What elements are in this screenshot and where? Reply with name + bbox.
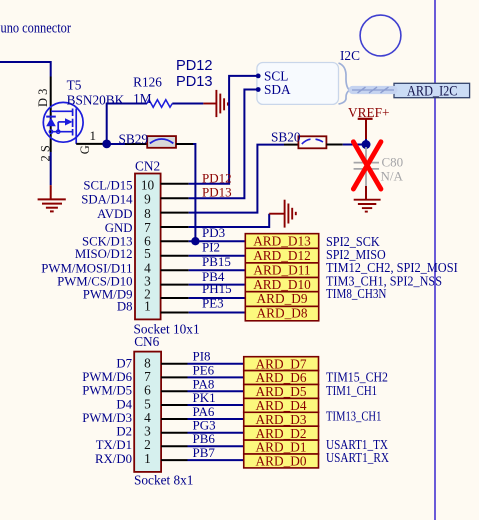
svg-text:1: 1 — [144, 299, 151, 314]
harness entry ARD_D5 — [244, 384, 319, 399]
svg-text:2 S: 2 S — [39, 145, 53, 161]
svg-text:PB15: PB15 — [202, 254, 231, 269]
harness entry dot SCL — [256, 74, 261, 79]
junction dot PD3 node — [191, 237, 199, 245]
svg-text:uno connector: uno connector — [1, 21, 72, 37]
solder bridge SB29 — [147, 136, 176, 148]
svg-text:ARD_D9: ARD_D9 — [257, 291, 308, 306]
transistor T5 body diode — [46, 118, 56, 127]
wire from left edge to T5 drain — [0, 62, 51, 77]
svg-text:T5: T5 — [67, 78, 82, 93]
wire SB29 to PD3 node — [176, 143, 193, 145]
svg-text:ARD_D10: ARD_D10 — [253, 277, 311, 292]
wire SB20 to VREF node — [326, 144, 342, 146]
svg-text:PB6: PB6 — [193, 431, 216, 446]
svg-text:ARD_D8: ARD_D8 — [257, 306, 308, 321]
CN2 pin numbers — [141, 177, 155, 313]
svg-text:MISO/D12: MISO/D12 — [75, 247, 133, 261]
transistor T5 body — [43, 102, 83, 142]
wire pin2 PH15 — [189, 297, 246, 299]
wire pin10 to SCL — [189, 76, 259, 184]
connector CN2 — [135, 174, 161, 320]
svg-text:D2: D2 — [116, 425, 132, 439]
svg-text:5: 5 — [144, 246, 151, 261]
harness entry ARD_D2 — [244, 426, 319, 441]
svg-text:ARD_D0: ARD_D0 — [256, 454, 307, 469]
svg-text:PWM/D5: PWM/D5 — [82, 384, 132, 398]
svg-text:D7: D7 — [116, 356, 132, 370]
wire pin1 PE3 — [189, 312, 246, 314]
harness entry ARD_D3 — [244, 412, 319, 427]
transistor T5 source pin circles — [49, 130, 53, 134]
CN2 pin stubs — [161, 184, 189, 313]
svg-text:ARD_D13: ARD_D13 — [253, 233, 311, 248]
harness entry ARD_D8 — [245, 306, 318, 321]
svg-text:ARD_D6: ARD_D6 — [256, 370, 307, 385]
harness entry ARD_D1 — [244, 440, 319, 455]
harness entry ARD_D4 — [244, 398, 319, 413]
svg-text:GND: GND — [105, 221, 133, 235]
svg-text:7: 7 — [144, 369, 151, 384]
svg-text:2: 2 — [144, 437, 151, 452]
svg-text:D4: D4 — [116, 397, 132, 411]
svg-text:ARD_D11: ARD_D11 — [253, 263, 310, 278]
wire pin9 to SDA — [189, 90, 259, 199]
harness entry ARD_D12 — [245, 248, 318, 263]
wire pin4 PB15 — [189, 269, 246, 271]
svg-text:G: G — [78, 145, 92, 154]
svg-text:1: 1 — [144, 451, 151, 466]
svg-text:PWM/D3: PWM/D3 — [82, 411, 132, 425]
harness entry ARD_D7 — [244, 356, 319, 371]
CN6 left pin name labels — [82, 356, 132, 466]
svg-text:ARD_D12: ARD_D12 — [253, 248, 311, 263]
svg-text:PWM/CS/D10: PWM/CS/D10 — [57, 275, 132, 289]
svg-text:ARD_I2C: ARD_I2C — [407, 84, 458, 100]
svg-text:TX/D1: TX/D1 — [96, 438, 132, 452]
harness entry dot SDA — [256, 87, 261, 92]
svg-text:USART1_RX: USART1_RX — [326, 450, 389, 465]
svg-text:PWM/MOSI/D11: PWM/MOSI/D11 — [41, 261, 132, 275]
harness entry ARD_D11 — [245, 263, 318, 278]
svg-text:I2C: I2C — [340, 48, 360, 63]
svg-text:C80: C80 — [382, 154, 404, 169]
I2C harness body — [257, 63, 339, 105]
harness entry ARD_D9 — [245, 291, 318, 306]
svg-text:SCL: SCL — [264, 68, 288, 83]
wire gate node to SB29 — [107, 143, 125, 145]
svg-text:8: 8 — [144, 206, 151, 221]
svg-text:PB7: PB7 — [193, 445, 216, 460]
harness entry ARD_D10 — [245, 277, 318, 292]
capacitor C80 (not fitted) — [354, 147, 379, 186]
svg-text:PH15: PH15 — [202, 281, 232, 296]
wire pin5 PI2 — [189, 255, 246, 257]
svg-text:SDA/D14: SDA/D14 — [81, 193, 133, 207]
svg-text:SB29: SB29 — [119, 132, 149, 147]
sideways ground at pin7 — [269, 200, 296, 228]
svg-text:ARD_D5: ARD_D5 — [256, 384, 307, 399]
svg-text:Socket 8x1: Socket 8x1 — [134, 472, 193, 487]
harness connector ARD_I2C — [394, 83, 470, 99]
svg-text:TIM8_CH3N: TIM8_CH3N — [326, 286, 387, 301]
svg-text:RX/D0: RX/D0 — [95, 452, 132, 466]
svg-text:9: 9 — [144, 192, 151, 207]
svg-text:N/A: N/A — [381, 169, 404, 184]
svg-text:TIM13_CH1: TIM13_CH1 — [326, 408, 381, 423]
T5 gate pin — [75, 136, 77, 144]
transistor T5 pin line (drain-source through body) — [50, 77, 52, 153]
svg-text:AVDD: AVDD — [97, 207, 132, 221]
svg-text:BSN20BK: BSN20BK — [67, 93, 125, 108]
svg-text:TIM1_CH1: TIM1_CH1 — [326, 383, 377, 398]
wire pin3 PB4 — [189, 284, 246, 286]
svg-text:PE6: PE6 — [193, 362, 215, 377]
solder bridge SB20 — [298, 136, 326, 148]
svg-text:SDA: SDA — [264, 82, 291, 97]
svg-text:R126: R126 — [133, 75, 162, 90]
svg-text:PE3: PE3 — [202, 295, 224, 310]
wire pin7 to ground — [189, 214, 270, 227]
svg-text:PD12: PD12 — [202, 170, 232, 185]
ground under T5 — [38, 185, 66, 211]
svg-text:ARD_D2: ARD_D2 — [256, 426, 307, 441]
svg-text:PD13: PD13 — [202, 185, 232, 200]
harness entry ARD_D0 — [244, 454, 319, 469]
svg-text:PD13: PD13 — [176, 74, 213, 90]
power port VREF+ — [348, 105, 390, 139]
svg-text:ARD_D3: ARD_D3 — [256, 412, 307, 427]
svg-text:PK1: PK1 — [193, 390, 216, 405]
harness entry ARD_D13 — [245, 233, 318, 248]
svg-text:D 3: D 3 — [36, 89, 50, 107]
svg-text:PWM/D6: PWM/D6 — [82, 370, 132, 384]
not-fitted cross — [353, 142, 381, 189]
wire gate node up to R126 — [107, 104, 147, 144]
wire T5 source to ground — [50, 152, 52, 185]
svg-text:ARD_D7: ARD_D7 — [256, 356, 307, 371]
svg-text:ARD_D1: ARD_D1 — [256, 440, 307, 455]
svg-text:SB20: SB20 — [271, 129, 301, 144]
connector CN6 — [134, 352, 161, 472]
ground under C80 — [354, 200, 381, 212]
svg-text:ARD_D4: ARD_D4 — [256, 398, 307, 413]
junction dot gate node — [102, 140, 111, 149]
svg-text:SCL/D15: SCL/D15 — [83, 178, 132, 192]
transistor T5 arrow — [65, 118, 73, 125]
svg-text:PD12: PD12 — [176, 58, 213, 74]
svg-text:PD3: PD3 — [202, 225, 225, 240]
wire R126 to ground — [172, 103, 203, 105]
svg-text:CN2: CN2 — [135, 159, 160, 174]
annotation circle I2C — [360, 15, 401, 56]
resistor R126 — [147, 100, 172, 108]
CN6 pin stubs — [161, 364, 187, 460]
svg-text:CN6: CN6 — [134, 334, 159, 349]
harness brace — [339, 63, 350, 104]
wire pin8 AVDD to SB20 — [189, 145, 284, 213]
CN6 pin numbers — [144, 355, 151, 466]
svg-text:1: 1 — [90, 128, 97, 143]
junction dot VREF node — [362, 140, 371, 149]
vertical bus line — [434, 0, 436, 520]
sideways ground at R126 — [203, 90, 228, 117]
CN2 left pin name labels — [41, 178, 133, 313]
wire pin6 PD3 — [189, 240, 246, 242]
harness cable — [349, 86, 398, 94]
svg-text:D8: D8 — [117, 300, 133, 314]
svg-text:1M: 1M — [133, 91, 152, 106]
harness entry ARD_D6 — [244, 370, 319, 385]
svg-text:PI2: PI2 — [202, 240, 220, 255]
svg-text:10: 10 — [141, 177, 155, 192]
CN6 wires to harness entries — [188, 364, 244, 460]
